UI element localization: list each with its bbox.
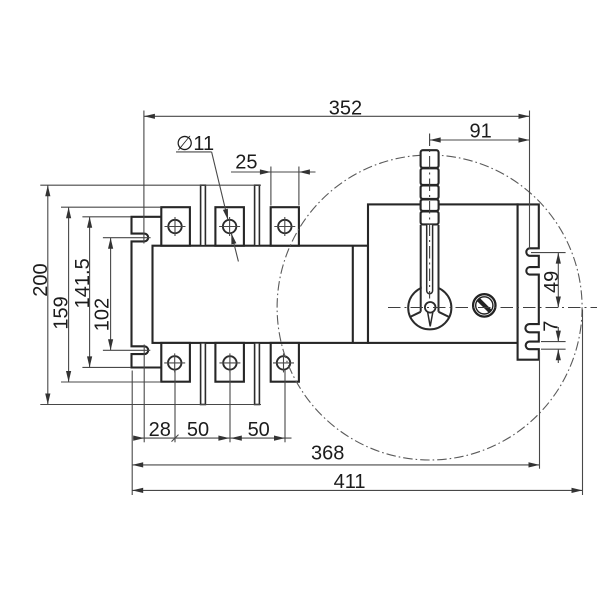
svg-text:25: 25 [235, 152, 257, 174]
handle segment 4 [421, 199, 439, 211]
terminal hole bottom 1 [164, 353, 185, 372]
dimension 159 extension lines [61, 206, 161, 208]
svg-text:411: 411 [334, 471, 366, 493]
handle fork left bar [420, 225, 422, 312]
interphase barrier top-right [255, 185, 260, 246]
dimension 352 line [144, 115, 530, 117]
adjustment screw outer ring [473, 294, 495, 316]
svg-text:50: 50 [187, 419, 209, 441]
interphase barrier top-left [201, 185, 206, 246]
main low body [153, 246, 369, 343]
dimension 200 line [47, 185, 49, 404]
handle segment 3 [421, 185, 439, 199]
horizontal centerline [388, 307, 597, 309]
dimension 352 extension lines [143, 111, 145, 244]
interphase barrier bottom-left [201, 343, 206, 405]
handle segment 5 [421, 211, 439, 224]
dimension 7 [541, 341, 566, 343]
pivot wedge cut right [439, 312, 449, 317]
right mounting plate with four slots [518, 204, 539, 359]
pivot wedge cut left [410, 312, 421, 317]
dimension 141.5 line [89, 217, 91, 368]
terminal hole top 2 [219, 217, 240, 236]
dimension 159 line [68, 207, 70, 382]
svg-text:102: 102 [92, 298, 114, 331]
pivot circle [408, 286, 451, 329]
handle vertical centerline [429, 134, 431, 299]
position pointer [427, 308, 434, 326]
terminal tab bottom 2 [215, 343, 244, 382]
svg-text:200: 200 [30, 263, 52, 296]
svg-text:7: 7 [540, 321, 562, 332]
terminal tab top 3 [271, 207, 299, 246]
terminal hole top 1 [165, 217, 186, 236]
dimension 25 extension lines [270, 167, 272, 206]
dimension 49 extension line [531, 252, 566, 254]
dimension 368 extension lines [131, 371, 133, 496]
svg-text:50: 50 [248, 419, 270, 441]
svg-text:159: 159 [51, 296, 73, 329]
svg-text:91: 91 [469, 121, 491, 143]
body internal edge line [352, 246, 354, 343]
dimension 49 line [557, 253, 559, 308]
terminal hole bottom 2 [219, 353, 240, 372]
dimension 368 line [132, 464, 539, 466]
dimension 102 line [110, 238, 112, 351]
dimension 141.5 extension lines [82, 216, 131, 218]
svg-text:49: 49 [541, 271, 563, 293]
dimension 91 line [430, 139, 530, 141]
dimension 28-50-50 extension lines [143, 345, 145, 443]
pivot hub small circle [425, 302, 436, 313]
dimension 28-50-50 line [133, 437, 291, 439]
right mechanism box [368, 204, 518, 343]
svg-text:352: 352 [329, 98, 362, 120]
dimension 411 extension line right [582, 310, 584, 496]
interphase barrier bottom-right [255, 343, 260, 405]
dimension 102 extension lines [103, 237, 151, 239]
adjustment screw inner circle [476, 297, 493, 314]
handle shaft cover over pivot rim [422, 283, 438, 312]
terminal tab top 2 [215, 207, 244, 246]
dimension 25 line [231, 171, 316, 173]
dimension 411 line [132, 489, 582, 491]
terminal hole top 3 [274, 217, 295, 236]
handle fork right bar [438, 225, 440, 312]
terminal hole bottom 3 [273, 353, 294, 372]
svg-text:28: 28 [149, 419, 171, 441]
left mounting flange with two slots [132, 217, 162, 368]
handle segment 2 [421, 168, 439, 185]
terminal tab bottom 3 [271, 343, 299, 382]
screw slot [479, 300, 491, 312]
dimension 200 extension lines [40, 184, 261, 186]
handle slot [427, 225, 433, 294]
handle swing arc (dash-dot circle) [277, 155, 582, 460]
terminal tab bottom 1 [161, 343, 190, 382]
handle segment 1 [421, 150, 439, 168]
svg-text:368: 368 [311, 443, 344, 465]
terminal tab top 1 [161, 207, 190, 246]
